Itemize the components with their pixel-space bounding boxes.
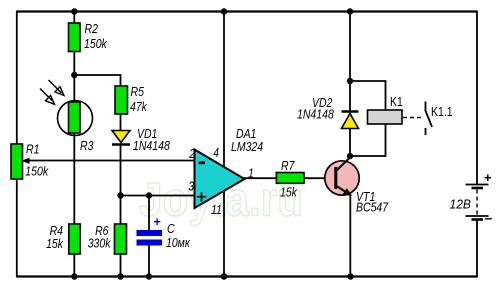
diode VD1 — [112, 127, 170, 153]
svg-text:DA1: DA1 — [236, 127, 256, 141]
svg-text:12В: 12В — [450, 198, 472, 212]
wire R2 branch vertical — [73, 12, 75, 103]
node top rail VD2 — [347, 8, 353, 14]
wire C branch lower — [148, 246, 150, 277]
wire VD2 to collector node — [349, 128, 351, 158]
resistor R7 — [276, 159, 304, 200]
svg-text:R4: R4 — [50, 224, 63, 238]
transistor VT1 — [325, 157, 389, 215]
svg-text:–: – — [485, 210, 493, 226]
wire VD1 to node — [120, 145, 122, 225]
svg-text:C: C — [167, 222, 175, 236]
photoresistor R3 — [58, 101, 94, 154]
node bottom rail R4 — [71, 273, 77, 279]
svg-text:K1: K1 — [390, 95, 403, 109]
node bottom rail C — [146, 273, 152, 279]
wire right rail lower — [476, 221, 478, 278]
capacitor C — [137, 215, 191, 250]
svg-text:47k: 47k — [130, 100, 148, 114]
svg-text:K1.1: K1.1 — [431, 105, 453, 119]
wire R7 to base — [304, 177, 336, 179]
node VD2 top junction — [347, 78, 353, 84]
svg-text:R3: R3 — [80, 139, 93, 153]
resistor R1 — [11, 143, 49, 180]
relay K1 — [368, 95, 403, 124]
wire emitter to bottom rail — [349, 194, 351, 277]
svg-text:15k: 15k — [280, 186, 298, 200]
node top rail op-amp — [221, 8, 227, 14]
svg-text:R5: R5 — [131, 85, 144, 99]
contact K1.1 — [425, 102, 453, 136]
wire bottom rail — [17, 275, 477, 277]
svg-text:1: 1 — [248, 167, 254, 181]
wire R5 to VD1 — [120, 114, 122, 131]
svg-text:11: 11 — [211, 203, 222, 217]
node collector junction — [347, 153, 353, 159]
wire left rail lower — [16, 178, 18, 277]
wire relay bottom branch — [350, 124, 386, 156]
diode VD2 — [297, 96, 359, 129]
resistor R6 — [88, 224, 127, 254]
battery GB1 12V — [450, 170, 493, 226]
wire pin3 line — [121, 195, 195, 197]
svg-text:1N4148: 1N4148 — [297, 108, 334, 122]
node bottom rail op-amp — [221, 273, 227, 279]
wire left rail upper — [16, 11, 18, 145]
wiper arrow R1 — [22, 158, 30, 164]
resistor R4 — [46, 224, 80, 254]
svg-text:15k: 15k — [46, 237, 64, 251]
svg-text:R7: R7 — [281, 159, 295, 173]
wire pin2 line — [24, 160, 195, 162]
svg-text:4: 4 — [213, 146, 219, 160]
node bottom rail R6 — [117, 273, 123, 279]
svg-text:10мк: 10мк — [166, 236, 191, 250]
wire op-amp output — [243, 177, 276, 179]
dashed link relay to contact — [403, 117, 422, 119]
wire C branch upper — [148, 196, 150, 231]
wire right rail upper — [476, 11, 478, 184]
resistor R5 — [115, 85, 148, 114]
svg-text:1N4148: 1N4148 — [133, 139, 170, 153]
wire R3 to R4 vertical — [73, 133, 75, 277]
node pin3-C junction — [146, 192, 152, 198]
svg-text:LM324: LM324 — [231, 140, 263, 154]
resistor R2 — [69, 22, 108, 52]
wire node to R5 horizontal — [74, 75, 120, 87]
svg-text:R2: R2 — [85, 22, 98, 36]
node bottom rail emitter — [347, 273, 353, 279]
wire top rail — [17, 10, 477, 12]
svg-text:+: + — [484, 170, 492, 185]
light arrows — [40, 80, 64, 104]
wire VD2 branch upper — [349, 12, 351, 113]
svg-text:+: + — [154, 215, 161, 229]
svg-text:150k: 150k — [84, 37, 107, 51]
svg-text:330k: 330k — [88, 237, 111, 251]
svg-text:3: 3 — [188, 180, 194, 194]
wire R6 to bottom rail — [120, 254, 122, 277]
node top rail R2 — [71, 8, 77, 14]
svg-text:150k: 150k — [25, 165, 48, 179]
node R2-R3-R5 junction — [71, 72, 77, 78]
node pin3-R6 junction — [117, 192, 123, 198]
svg-text:BC547: BC547 — [356, 201, 389, 215]
svg-text:R1: R1 — [26, 143, 39, 157]
op-amp U1 DA1 — [195, 127, 264, 208]
wire op-amp power vertical — [223, 12, 225, 277]
svg-text:2: 2 — [188, 147, 195, 161]
wire relay top branch — [350, 81, 386, 110]
